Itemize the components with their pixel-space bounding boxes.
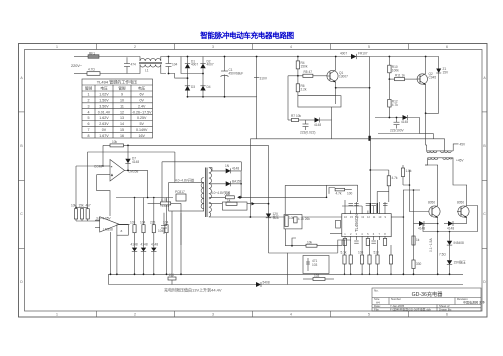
diode D10 4148 vertical xyxy=(127,145,129,158)
svg-text:4148: 4148 xyxy=(447,227,454,231)
svg-text:File:: File: xyxy=(374,308,380,312)
svg-text:474: 474 xyxy=(131,63,137,67)
svg-text:2.2k: 2.2k xyxy=(301,87,307,91)
svg-text:4007: 4007 xyxy=(207,63,214,67)
svg-text:7.5Ω: 7.5Ω xyxy=(439,253,446,257)
svg-text:16V: 16V xyxy=(138,134,145,138)
resistor Rr2 xyxy=(350,240,352,255)
node xyxy=(297,56,299,58)
resistor R12 xyxy=(388,79,390,99)
svg-text:4.7Ω: 4.7Ω xyxy=(88,68,95,72)
svg-text:4007: 4007 xyxy=(340,52,347,56)
svg-text:8050: 8050 xyxy=(428,201,435,205)
wire feed1 risers xyxy=(342,240,345,246)
svg-text:FR107: FR107 xyxy=(358,52,368,56)
wire tap3 xyxy=(209,196,226,198)
svg-text:10k: 10k xyxy=(307,240,313,244)
wire feedback L1 xyxy=(103,144,110,146)
resistor Rr4 xyxy=(369,240,371,255)
wire p13 long vertical xyxy=(369,139,371,214)
resistor R11 xyxy=(389,78,391,80)
svg-text:1N: 1N xyxy=(225,164,230,168)
wire rail join left xyxy=(108,274,110,284)
svg-text:4k7: 4k7 xyxy=(86,204,91,208)
svg-text:16: 16 xyxy=(120,134,124,138)
wire collector to rail xyxy=(425,57,427,74)
wire L3 xyxy=(240,162,242,171)
svg-text:1.02V: 1.02V xyxy=(99,93,109,97)
capacitor CX2 xyxy=(166,57,172,74)
diode D6 xyxy=(315,118,320,123)
svg-text:0V: 0V xyxy=(102,128,107,132)
svg-text:10: 10 xyxy=(120,99,124,103)
svg-text:9: 9 xyxy=(121,93,123,97)
svg-text:1: 1 xyxy=(88,93,90,97)
wire emitter bus box xyxy=(423,206,478,232)
svg-text:0.25V: 0.25V xyxy=(137,116,147,120)
diode D20 xyxy=(419,221,424,226)
resistor R6 xyxy=(297,76,299,84)
wire IC right to vertical xyxy=(391,216,403,218)
svg-text:1.50V: 1.50V xyxy=(99,99,109,103)
svg-text:电压: 电压 xyxy=(100,86,108,91)
svg-text:4.0~4.8V开始: 4.0~4.8V开始 xyxy=(175,178,195,183)
svg-text:13007: 13007 xyxy=(339,74,348,78)
inductor row2 winding B xyxy=(443,157,453,159)
svg-text:4148: 4148 xyxy=(131,243,138,247)
wire AC into bridge xyxy=(166,57,203,79)
wire horiz feed1 xyxy=(285,229,341,246)
wire AC bottom xyxy=(74,73,87,75)
wire xyxy=(100,73,138,75)
wire right vertical xyxy=(369,57,371,139)
wire rail V- lower xyxy=(109,284,257,286)
svg-text:电压: 电压 xyxy=(138,86,146,91)
zone ticks top xyxy=(19,44,488,318)
resistor R45 below xyxy=(303,278,313,280)
svg-text:R11 1k: R11 1k xyxy=(395,73,405,77)
resistor R25 horizontal xyxy=(148,202,161,204)
resistor Rr5 xyxy=(377,240,379,255)
svg-text:1.8k: 1.8k xyxy=(406,169,412,173)
svg-text:RF1: RF1 xyxy=(89,52,95,56)
wire box left of transformer xyxy=(169,183,204,212)
svg-text:1: 1 xyxy=(56,313,58,317)
diode col1 xyxy=(132,248,137,252)
loop with resistor above IC xyxy=(285,184,358,186)
wire bottom rail xyxy=(188,96,257,98)
op-amp U1B LM358 xyxy=(95,217,119,232)
resistor R4 xyxy=(297,57,299,61)
svg-text:D3: D3 xyxy=(191,85,195,89)
inductor row1 winding B xyxy=(441,150,452,152)
svg-text:103: 103 xyxy=(312,263,318,267)
wire Q3 collector up xyxy=(425,165,438,206)
svg-text:2: 2 xyxy=(88,99,90,103)
diode col2 xyxy=(141,248,146,252)
svg-text:45V: 45V xyxy=(460,143,467,147)
svg-text:223/100V: 223/100V xyxy=(390,129,405,133)
svg-text:4148: 4148 xyxy=(141,243,148,247)
svg-text:+: + xyxy=(111,174,113,178)
sheet border outer xyxy=(19,44,488,318)
components below IC pins xyxy=(343,238,346,245)
resistor col2 xyxy=(143,198,145,225)
resistor R5 xyxy=(303,74,313,77)
resistor col3 xyxy=(153,198,155,225)
resistor pair box left of IC xyxy=(284,215,302,229)
svg-text:10k: 10k xyxy=(112,140,118,144)
resistor R41 on feed1 xyxy=(306,244,317,247)
zener Z2 12V xyxy=(268,204,270,214)
svg-text:510: 510 xyxy=(374,251,380,255)
resistor Rr6 xyxy=(390,245,392,255)
wire minus riser xyxy=(102,145,104,166)
svg-text:310V: 310V xyxy=(260,77,268,81)
diode D4 xyxy=(200,74,205,97)
fuse FU1 xyxy=(88,55,99,59)
wire Q4 collector up xyxy=(453,163,467,206)
wire bottom tap xyxy=(209,216,284,218)
transformer T1 core xyxy=(205,168,207,218)
diode D1 xyxy=(185,57,190,79)
wire AC top xyxy=(74,56,88,58)
svg-text:1.67V: 1.67V xyxy=(99,134,109,138)
svg-text:13: 13 xyxy=(120,116,124,120)
resistor Rr1 xyxy=(344,240,346,255)
svg-text:4148: 4148 xyxy=(401,120,408,124)
svg-text:223: 223 xyxy=(150,221,156,225)
wire base snubber row xyxy=(288,119,292,121)
svg-text:R5 47: R5 47 xyxy=(304,70,313,74)
svg-text:2: 2 xyxy=(134,45,136,49)
svg-text:4.7k 26k: 4.7k 26k xyxy=(298,217,310,221)
svg-text:6: 6 xyxy=(446,313,448,317)
svg-text:10k: 10k xyxy=(71,204,77,208)
svg-text:LM358: LM358 xyxy=(103,228,113,232)
svg-text:TL431: TL431 xyxy=(160,204,169,208)
svg-text:104: 104 xyxy=(140,221,146,225)
zone labels xyxy=(20,45,486,317)
wire plus input L xyxy=(97,175,110,216)
svg-text:1k: 1k xyxy=(227,198,231,202)
wire top rail xyxy=(188,56,352,58)
svg-text:100: 100 xyxy=(347,192,353,196)
svg-text:1k: 1k xyxy=(416,238,420,242)
transistor Q2 C945 xyxy=(417,74,427,85)
svg-text:5V: 5V xyxy=(139,122,144,126)
resistor col1 xyxy=(134,198,136,225)
wire Q4 emitter xyxy=(466,218,468,224)
IC pins top xyxy=(345,211,385,215)
svg-text:14: 14 xyxy=(120,122,124,126)
wire bottom rail IC xyxy=(344,274,346,276)
wire tap1 xyxy=(209,168,226,171)
diode D15 on lower rail xyxy=(256,282,261,287)
svg-text:GD-36充电器: GD-36充电器 xyxy=(412,290,444,298)
heavy pin wires xyxy=(370,203,371,213)
svg-text:100k: 100k xyxy=(392,68,399,72)
svg-text:15V: 15V xyxy=(443,70,450,74)
op-amp U1A LM358 xyxy=(97,160,125,182)
inductor row1 winding A xyxy=(427,150,437,152)
small box at IC left xyxy=(336,220,341,228)
svg-text:管脚: 管脚 xyxy=(85,86,93,91)
wire emitter net xyxy=(336,87,370,89)
svg-text:中国电源网 木予: 中国电源网 木予 xyxy=(463,299,485,304)
svg-text:150k: 150k xyxy=(301,64,308,68)
svg-text:PC817: PC817 xyxy=(175,190,185,194)
svg-text:5.1k: 5.1k xyxy=(341,251,347,255)
wire from left xyxy=(375,117,403,119)
wire long vertical left xyxy=(87,152,89,207)
left small parts xyxy=(402,165,404,168)
node junction xyxy=(168,56,170,58)
resistor R31 box xyxy=(222,202,247,210)
wire op2 down xyxy=(110,232,112,274)
svg-text:4: 4 xyxy=(290,313,292,317)
svg-text:15: 15 xyxy=(120,128,124,132)
svg-text:COMP: COMP xyxy=(94,165,104,169)
sheet border inner xyxy=(25,50,483,312)
capacitor CX1 xyxy=(124,57,130,73)
svg-text:6: 6 xyxy=(446,45,448,49)
wire base drive xyxy=(288,75,303,77)
svg-text:+45V: +45V xyxy=(456,159,464,163)
svg-text:4148: 4148 xyxy=(314,123,321,127)
diode D12 xyxy=(226,181,231,186)
inductor L1 common-mode choke xyxy=(138,57,166,74)
resistor R7 xyxy=(292,118,299,121)
svg-text:-: - xyxy=(111,165,112,169)
svg-text:0V: 0V xyxy=(139,99,144,103)
transformer T1 secondary upper xyxy=(209,168,212,199)
svg-text:6V: 6V xyxy=(139,93,144,97)
resistor R20 10k xyxy=(110,144,124,147)
wire output xyxy=(125,169,148,171)
resistor right of IC xyxy=(412,236,415,245)
svg-text:104: 104 xyxy=(158,229,164,233)
svg-text:3.6~4.05V: 3.6~4.05V xyxy=(96,217,111,221)
svg-text:IN5408: IN5408 xyxy=(454,241,465,245)
wire rail V- upper xyxy=(109,273,464,275)
svg-text:3: 3 xyxy=(88,104,90,108)
resistor Ra xyxy=(74,209,77,219)
svg-text:223(0.022): 223(0.022) xyxy=(300,131,315,135)
node junctions bridge xyxy=(187,77,189,79)
svg-text:充电时限压值由13V上升到44.4V: 充电时限压值由13V上升到44.4V xyxy=(164,287,222,293)
resistor divider chain xyxy=(76,206,88,208)
capacitor C1 bulk xyxy=(221,57,229,97)
resistor Rc xyxy=(86,209,89,219)
svg-text:330: 330 xyxy=(416,262,422,266)
capacitor C12 104 xyxy=(161,213,167,234)
svg-text:11: 11 xyxy=(120,104,124,108)
component box K xyxy=(117,225,128,236)
svg-text:104: 104 xyxy=(172,63,178,67)
svg-text:2.4V: 2.4V xyxy=(138,104,146,108)
wire top rail mid xyxy=(116,197,173,199)
inductor row2 winding A xyxy=(428,157,438,159)
svg-text:15k: 15k xyxy=(79,204,85,208)
vertical to pin6 xyxy=(376,192,378,211)
wire Q3 emitter xyxy=(437,218,439,224)
svg-text:104: 104 xyxy=(169,273,175,277)
svg-text:3.50V: 3.50V xyxy=(99,104,109,108)
svg-text:4.7k: 4.7k xyxy=(336,192,342,196)
wire B+ down xyxy=(256,57,258,139)
svg-text:4.7k: 4.7k xyxy=(392,176,398,180)
capacitor C5 xyxy=(303,120,309,130)
svg-text:2.63V: 2.63V xyxy=(99,122,109,126)
svg-text:F:\常用\充电器\GD-36充电器.ddb: F:\常用\充电器\GD-36充电器.ddb xyxy=(390,308,431,312)
svg-text:No.: No. xyxy=(374,289,379,293)
diode D2 xyxy=(200,57,205,74)
diode D3 xyxy=(185,78,190,97)
TL494 pin voltage table xyxy=(82,79,153,138)
svg-text:4: 4 xyxy=(88,110,90,114)
IC pins bottom xyxy=(345,236,385,240)
pin caps above xyxy=(342,202,385,211)
wire left long vertical xyxy=(402,190,404,274)
svg-text:103: 103 xyxy=(130,221,136,225)
wire rails down xyxy=(410,185,430,212)
wire rail to right xyxy=(370,56,439,58)
capacitor C8 xyxy=(394,118,400,129)
svg-text:5408: 5408 xyxy=(263,281,270,285)
svg-text:R7 10k: R7 10k xyxy=(291,114,302,118)
wire emitter down xyxy=(335,82,337,104)
wire tap2 xyxy=(209,183,226,185)
svg-text:12: 12 xyxy=(120,110,124,114)
transistor Q3 xyxy=(429,206,440,218)
junction blob xyxy=(368,136,370,141)
wire verticals to IC xyxy=(268,145,270,203)
wire feed to windings xyxy=(444,139,446,151)
resistor Rb xyxy=(80,209,83,219)
svg-text:0.1~1.5A: 0.1~1.5A xyxy=(429,238,433,252)
wire winding drops xyxy=(425,158,428,165)
svg-text:103: 103 xyxy=(358,251,364,255)
wire feedback L2 xyxy=(88,151,175,153)
svg-text:0.149V: 0.149V xyxy=(136,128,148,132)
svg-text:L1: L1 xyxy=(145,69,149,73)
resistor Rr3 xyxy=(361,240,363,255)
wire transformer left feed xyxy=(180,213,182,245)
svg-text:D4: D4 xyxy=(207,85,211,89)
transformer T1 secondary lower xyxy=(209,202,212,217)
svg-text:BA159: BA159 xyxy=(232,180,242,184)
wire riser left of IC xyxy=(292,238,296,246)
svg-text:6: 6 xyxy=(88,122,90,126)
opto U3 PC817 xyxy=(176,194,186,201)
svg-text:-0.26~17.5V: -0.26~17.5V xyxy=(132,110,152,114)
svg-text:稳压: 稳压 xyxy=(273,214,280,219)
svg-text:管脚: 管脚 xyxy=(118,86,126,91)
svg-text:5: 5 xyxy=(368,45,370,49)
wire xyxy=(99,56,138,58)
diode D23 xyxy=(447,260,452,264)
resistor RT1 xyxy=(87,72,100,76)
svg-text:8: 8 xyxy=(88,134,90,138)
svg-text:1.62V: 1.62V xyxy=(99,116,109,120)
wire emitter down xyxy=(425,85,427,114)
resistor R10 xyxy=(388,57,390,66)
svg-text:a: a xyxy=(121,229,123,233)
wire output op2 xyxy=(119,223,129,225)
svg-text:3: 3 xyxy=(212,45,214,49)
svg-text:4148: 4148 xyxy=(132,160,139,164)
svg-text:4148: 4148 xyxy=(151,243,158,247)
svg-text:15V稳压: 15V稳压 xyxy=(454,260,467,265)
svg-text:7: 7 xyxy=(88,128,90,132)
resistor R30 xyxy=(225,196,234,199)
svg-text:LM358: LM358 xyxy=(129,169,139,173)
zener ZD1 15V xyxy=(436,57,441,114)
diode col3 xyxy=(151,248,156,252)
svg-text:5: 5 xyxy=(88,116,90,120)
svg-text:智能脉冲电动车充电器电路图: 智能脉冲电动车充电器电路图 xyxy=(200,30,294,40)
transformer T1 primary winding xyxy=(201,178,204,209)
wire collector up xyxy=(335,57,337,71)
svg-text:4148: 4148 xyxy=(232,167,239,171)
wire tap4 xyxy=(209,203,223,205)
transistor Q4 xyxy=(457,206,469,218)
svg-text:2: 2 xyxy=(134,313,136,317)
diode D11 xyxy=(226,168,231,173)
svg-text:4.7k: 4.7k xyxy=(392,103,398,107)
svg-text:5: 5 xyxy=(368,313,370,317)
diode chain right xyxy=(449,232,451,241)
diode D8 4148 xyxy=(403,115,408,120)
wire from aux down xyxy=(425,113,427,139)
resistor R40 above IC xyxy=(388,186,390,202)
wire loop box xyxy=(287,76,289,120)
svg-text:Drawn By:: Drawn By: xyxy=(439,308,452,312)
wire IC pin1 to left xyxy=(302,216,342,218)
svg-text:C945: C945 xyxy=(429,75,437,79)
svg-text:1: 1 xyxy=(56,45,58,49)
svg-text:4007: 4007 xyxy=(191,63,198,67)
svg-text:3: 3 xyxy=(212,313,214,317)
svg-text:Number: Number xyxy=(391,297,401,301)
resistor R52 330 xyxy=(412,260,415,269)
wire from middle to IC top xyxy=(241,196,327,198)
wire horiz feed2 xyxy=(269,252,338,254)
diode D5 on rail xyxy=(351,54,370,59)
wire bottoms xyxy=(76,220,100,222)
resistor col4 xyxy=(166,198,168,225)
title block xyxy=(372,288,481,311)
diode D21 xyxy=(448,221,453,226)
svg-text:4.7k: 4.7k xyxy=(161,198,167,202)
wire 45V tap xyxy=(453,144,458,151)
transistor Q1 13007 xyxy=(327,70,338,82)
svg-text:220V~: 220V~ xyxy=(71,64,83,68)
svg-text:4148: 4148 xyxy=(418,227,425,231)
svg-text:TL494 管脚的工作电压: TL494 管脚的工作电压 xyxy=(97,79,137,85)
svg-text:8050: 8050 xyxy=(457,201,464,205)
svg-text:450V68uF: 450V68uF xyxy=(229,72,244,76)
svg-text:10: 10 xyxy=(226,192,230,196)
svg-text:4: 4 xyxy=(290,45,292,49)
resistor R50 between rails xyxy=(171,211,173,277)
wire emitter to zener bottom xyxy=(426,112,439,114)
svg-text:0.01.4V: 0.01.4V xyxy=(98,110,111,114)
box left of resistor row xyxy=(303,256,329,274)
capacitor cluster above IC xyxy=(349,204,388,206)
